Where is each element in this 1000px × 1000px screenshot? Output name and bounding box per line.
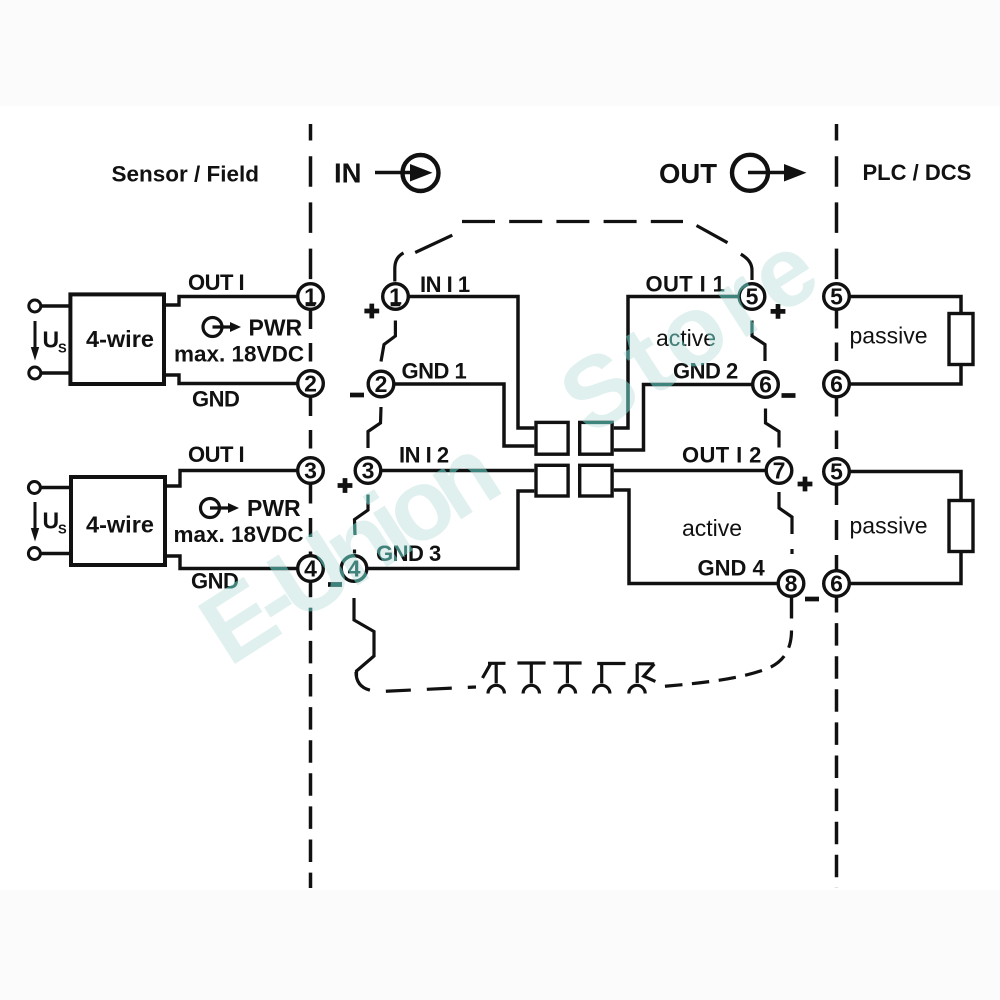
svg-text:OUT I: OUT I <box>188 270 244 295</box>
svg-text:OUT I 2: OUT I 2 <box>682 443 762 468</box>
svg-text:8: 8 <box>785 571 798 597</box>
svg-text:3: 3 <box>304 458 317 484</box>
svg-text:GND 1: GND 1 <box>402 359 467 384</box>
svg-text:U: U <box>43 508 60 534</box>
svg-text:6: 6 <box>830 571 843 597</box>
svg-text:IN I 1: IN I 1 <box>420 272 470 297</box>
svg-text:6: 6 <box>759 372 772 398</box>
svg-text:S: S <box>58 341 67 356</box>
svg-text:OUT: OUT <box>659 158 717 189</box>
svg-text:4-wire: 4-wire <box>86 326 154 352</box>
svg-text:GND: GND <box>192 387 239 412</box>
svg-text:GND 4: GND 4 <box>698 556 766 581</box>
svg-text:2: 2 <box>375 371 388 397</box>
svg-text:OUT I: OUT I <box>188 442 244 467</box>
svg-text:PWR: PWR <box>247 495 301 521</box>
svg-text:U: U <box>43 327 60 353</box>
svg-text:5: 5 <box>830 459 843 485</box>
svg-text:PWR: PWR <box>249 315 303 341</box>
svg-text:passive: passive <box>850 323 928 349</box>
svg-text:2: 2 <box>304 371 317 397</box>
svg-text:IN: IN <box>334 157 362 188</box>
svg-text:active: active <box>682 515 742 541</box>
svg-text:4-wire: 4-wire <box>86 512 154 538</box>
svg-text:6: 6 <box>830 371 843 397</box>
svg-text:7: 7 <box>773 458 786 484</box>
svg-text:S: S <box>58 522 67 537</box>
svg-text:max. 18VDC: max. 18VDC <box>174 342 304 367</box>
svg-text:passive: passive <box>850 513 928 539</box>
svg-text:Sensor / Field: Sensor / Field <box>112 162 260 187</box>
svg-text:PLC / DCS: PLC / DCS <box>863 160 972 185</box>
